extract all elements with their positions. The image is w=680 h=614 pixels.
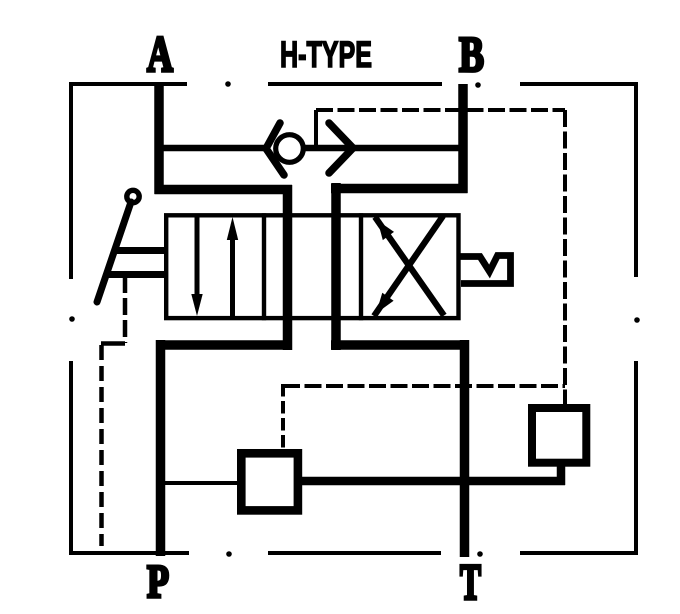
check valve seat (266, 123, 284, 175)
check valve ball (276, 135, 304, 163)
lever pilot vertical dashed (123, 276, 128, 343)
wire relief output thick (302, 477, 565, 486)
valve left position up arrow (227, 217, 238, 319)
port label T (460, 555, 481, 611)
wire port P vertical (156, 340, 166, 556)
wire A to valve horizontal (155, 185, 293, 195)
wire right relief bottom stub (557, 462, 566, 485)
right relief valve box (532, 408, 586, 463)
wire port B vertical (458, 84, 468, 193)
wire valve to P horizontal (156, 340, 292, 350)
wire open-center bar B-T (331, 183, 341, 350)
wire check valve line left (159, 145, 268, 152)
wire port T vertical (460, 340, 470, 557)
wire open-center bar A-P (283, 185, 293, 350)
valve position divider left (262, 213, 266, 320)
svg-text:A: A (147, 27, 173, 83)
wire P to left relief thin (160, 481, 237, 485)
valve left position down arrow (191, 215, 202, 316)
port label A (147, 27, 173, 83)
directional valve body (166, 215, 458, 318)
return spring (457, 256, 511, 284)
lever link upper (113, 247, 165, 254)
left relief valve box (241, 453, 298, 510)
enclosure border right (634, 82, 640, 555)
pilot drop to left relief box dashed (281, 384, 285, 448)
pilot line top horizontal dashed (316, 108, 565, 112)
enclosure border top (70, 81, 638, 88)
pilot line right vertical dashed (563, 110, 567, 405)
valve right position crossed arrow 2 (375, 217, 444, 316)
enclosure border left (69, 82, 75, 555)
wire check valve line right (303, 145, 463, 152)
flow direction arrow (329, 123, 353, 173)
lever arm (97, 202, 131, 302)
wire port A vertical (154, 84, 164, 194)
lever pilot step horizontal (101, 341, 125, 346)
svg-text:T: T (460, 555, 481, 611)
enclosure border bottom (69, 551, 638, 557)
svg-text:H-TYPE: H-TYPE (280, 34, 372, 75)
svg-text:P: P (147, 556, 169, 608)
pilot tap vertical at check line (314, 110, 318, 148)
pilot line middle horizontal dashed (283, 384, 565, 388)
svg-text:B: B (459, 26, 484, 82)
lever pivot (127, 190, 139, 202)
port label P (147, 556, 169, 608)
port label B (459, 26, 484, 82)
lever link lower (105, 271, 165, 278)
title H-TYPE (280, 34, 372, 75)
lever pilot lower vertical dashed (99, 345, 104, 546)
valve right position crossed arrow 1 (374, 216, 443, 316)
wire valve to T horizontal (331, 340, 469, 350)
wire B to valve horizontal (331, 184, 468, 194)
valve position divider right (359, 213, 363, 320)
